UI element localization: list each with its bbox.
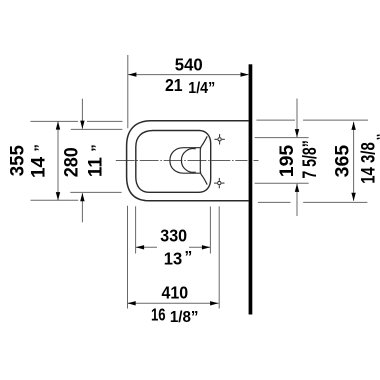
- dim 540 line: [128, 74, 249, 76]
- toilet outer outline: [127, 121, 249, 201]
- svg-text:21: 21: [165, 75, 183, 95]
- drain horseshoe: [170, 148, 200, 174]
- dim 540 extension line: [127, 55, 129, 128]
- dim 330 extension left: [135, 206, 137, 253]
- svg-text:”: ”: [185, 249, 193, 266]
- dim 330 arrow left: [136, 245, 144, 249]
- mounting hole cross top: [214, 134, 224, 144]
- mounting hole cross bottom: [214, 178, 224, 188]
- dim 195 extension top: [255, 137, 309, 139]
- dim 280 extension top: [71, 128, 123, 130]
- dim 195 arrow line bottom: [296, 184, 298, 216]
- dim 330 line: [136, 246, 157, 248]
- dim 280 extension bottom: [70, 191, 121, 193]
- svg-text:1/4”: 1/4”: [188, 80, 215, 97]
- centerline: [116, 160, 259, 162]
- svg-text:16: 16: [151, 304, 166, 324]
- dim 330 arrow right: [202, 245, 210, 249]
- toilet inner rim: [136, 131, 211, 193]
- dim 410 extension right: [218, 206, 220, 308]
- dim 365 extension bottom: [258, 201, 291, 203]
- dim 410 line: [128, 302, 219, 304]
- dim 355 extension top: [31, 120, 79, 122]
- svg-text:410: 410: [162, 282, 189, 302]
- svg-text:14 3/8: 14 3/8: [358, 142, 380, 184]
- dim 330 extension right: [209, 207, 211, 254]
- svg-text:330: 330: [160, 226, 187, 246]
- svg-text:13: 13: [164, 248, 183, 268]
- dim 410 extension left: [127, 206, 129, 309]
- drain trumpet channel: [200, 136, 207, 184]
- wall: [249, 64, 253, 314]
- dim 540 arrow right: [241, 72, 249, 76]
- dim 195 arrow line top: [296, 99, 298, 138]
- svg-text:1/8”: 1/8”: [170, 309, 199, 326]
- dim 365 line: [353, 122, 355, 201]
- svg-text:11 ”: 11 ”: [86, 144, 107, 177]
- dim 365 arrow up: [351, 122, 355, 130]
- svg-text:7 5/8”: 7 5/8”: [299, 140, 321, 179]
- dim 365 inch quote mark: [377, 134, 380, 137]
- dim 195 extension bottom: [255, 182, 309, 184]
- svg-text:540: 540: [175, 54, 203, 74]
- dim 280 arrow line bottom: [81, 193, 83, 222]
- dim 355 arrow down: [56, 192, 60, 200]
- dim 280 arrow line top: [81, 99, 83, 129]
- dim 355 line: [57, 122, 59, 201]
- dim 365 arrow down: [351, 193, 355, 201]
- svg-text:280: 280: [61, 147, 82, 177]
- dim 355 arrow up: [56, 121, 60, 129]
- toilet top extension: [87, 120, 123, 122]
- svg-text:355: 355: [7, 145, 28, 176]
- dim 365 extension top: [256, 119, 295, 121]
- dim 410 arrow right: [210, 301, 218, 305]
- svg-text:195: 195: [277, 144, 298, 177]
- svg-text:365: 365: [333, 144, 354, 177]
- dim 410 arrow left: [127, 301, 135, 305]
- drain cup arc: [181, 149, 195, 173]
- dim 540 arrow left: [128, 72, 136, 76]
- dim 355 extension bottom: [31, 199, 79, 201]
- svg-text:14 ”: 14 ”: [28, 144, 49, 178]
